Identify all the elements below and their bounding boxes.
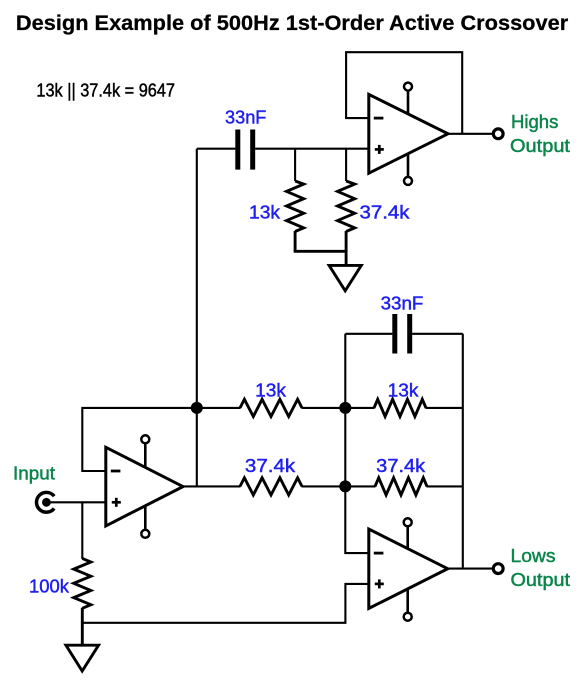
svg-text:Highs: Highs xyxy=(511,112,558,132)
svg-text:Lows: Lows xyxy=(511,546,556,566)
svg-text:33nF: 33nF xyxy=(381,293,424,313)
svg-text:13k || 37.4k = 9647: 13k || 37.4k = 9647 xyxy=(36,80,175,100)
svg-text:13k: 13k xyxy=(255,381,287,401)
svg-text:100k: 100k xyxy=(29,577,70,597)
svg-text:Input: Input xyxy=(13,464,55,484)
svg-text:33nF: 33nF xyxy=(225,107,266,127)
svg-text:Output: Output xyxy=(510,136,570,156)
svg-text:37.4k: 37.4k xyxy=(245,456,296,476)
svg-text:37.4k: 37.4k xyxy=(376,456,426,476)
svg-text:37.4k: 37.4k xyxy=(360,203,411,223)
svg-text:Design Example of 500Hz 1st-Or: Design Example of 500Hz 1st-Order Active… xyxy=(16,11,569,35)
svg-text:13k: 13k xyxy=(388,381,420,401)
svg-text:13k: 13k xyxy=(249,203,281,223)
svg-text:Output: Output xyxy=(511,570,571,590)
